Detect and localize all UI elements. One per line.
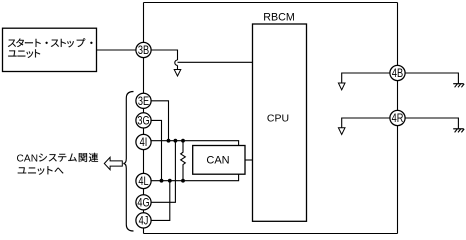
svg-text:CAN: CAN (17, 154, 39, 165)
svg-text:4L: 4L (138, 176, 148, 188)
svg-text:3B: 3B (138, 45, 149, 57)
svg-text:4I: 4I (140, 137, 148, 149)
svg-text:4G: 4G (137, 198, 149, 210)
svg-text:CAN: CAN (206, 155, 229, 167)
svg-text:4J: 4J (139, 216, 149, 228)
svg-text:CPU: CPU (267, 113, 289, 125)
svg-text:3G: 3G (137, 116, 149, 128)
svg-text:4B: 4B (392, 68, 403, 80)
svg-text:3E: 3E (138, 96, 149, 108)
svg-text:4R: 4R (392, 113, 404, 125)
svg-text:RBCM: RBCM (263, 11, 295, 23)
